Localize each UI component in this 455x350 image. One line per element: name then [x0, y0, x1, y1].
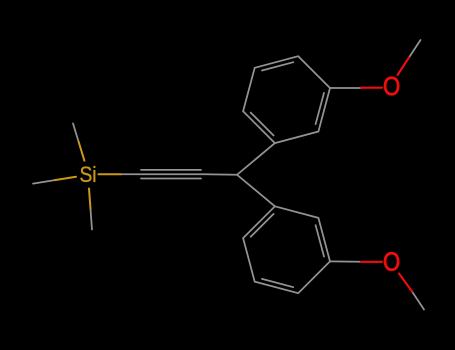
svg-text:Si: Si	[79, 163, 96, 188]
atom label Si	[79, 163, 96, 188]
wire: C3 to ring B ipso	[237, 175, 275, 207]
O bonds red halves	[361, 58, 412, 292]
wire: ring B to O bond, carbon half	[330, 260, 361, 262]
wire: top O-CH3 bond, carbon half	[409, 40, 421, 58]
wire: C3 to ring A ipso	[237, 143, 275, 175]
wire: Si-C bond carbon half	[121, 173, 138, 175]
benzene ring A (upper)	[243, 56, 330, 143]
ring A inner double bond lines	[251, 62, 324, 135]
svg-text:O: O	[383, 248, 400, 277]
triple bond C1#C2	[138, 170, 204, 179]
wire: ring A to O bond, carbon half	[330, 87, 361, 89]
Si methyl bonds: outer carbon halves	[33, 124, 92, 230]
svg-text:O: O	[383, 73, 400, 102]
atom label O (bottom)	[383, 248, 400, 277]
wire: C2-C3 bond	[204, 173, 237, 176]
atom label O (top)	[383, 73, 400, 102]
ring B inner double bond lines	[251, 214, 324, 287]
benzene ring B (lower)	[243, 206, 330, 293]
wire: bottom O-CH3 bond, carbon half	[412, 292, 424, 310]
Si methyl bonds: silicon halves (tan)	[55, 142, 121, 209]
